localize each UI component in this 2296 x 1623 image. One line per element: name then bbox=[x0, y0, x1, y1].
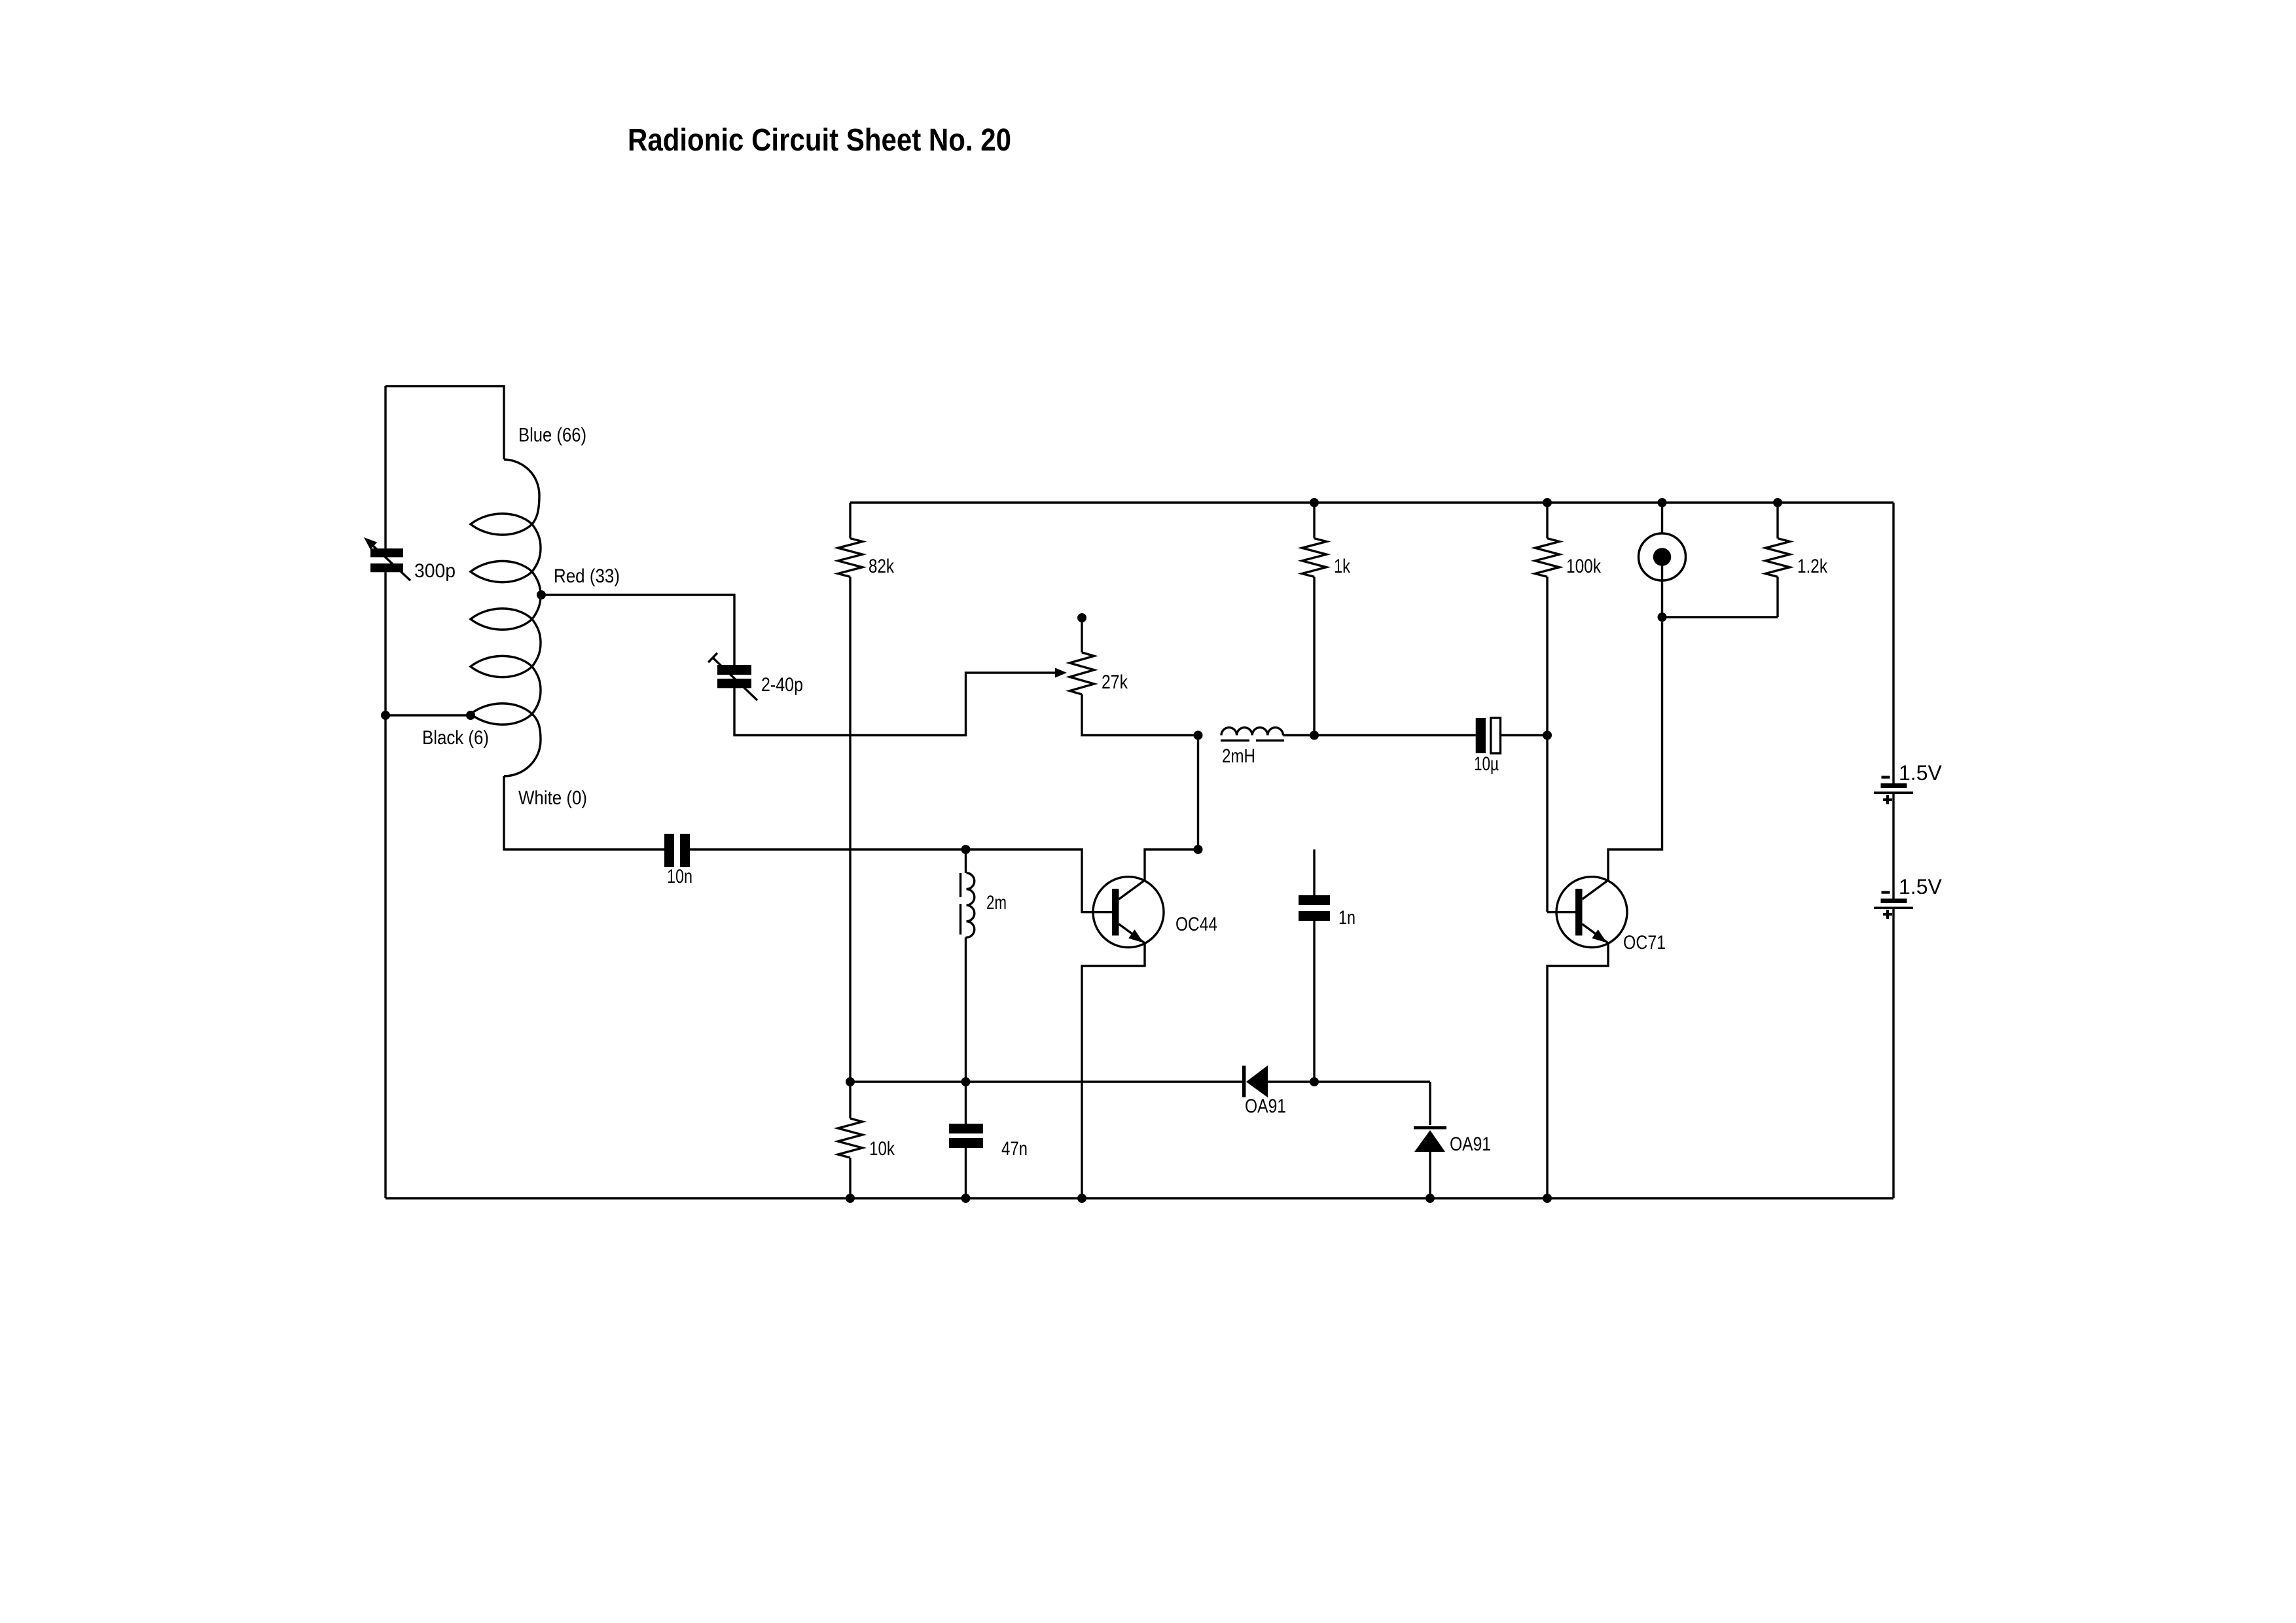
svg-text:2m: 2m bbox=[986, 892, 1007, 914]
svg-text:82k: 82k bbox=[869, 556, 895, 577]
svg-text:10k: 10k bbox=[869, 1138, 895, 1160]
svg-text:OA91: OA91 bbox=[1450, 1133, 1491, 1155]
svg-text:2-40p: 2-40p bbox=[761, 674, 803, 696]
svg-text:100k: 100k bbox=[1566, 556, 1602, 577]
svg-text:White (0): White (0) bbox=[518, 787, 587, 809]
svg-text:1.5V: 1.5V bbox=[1899, 761, 1942, 785]
svg-text:1k: 1k bbox=[1334, 556, 1351, 577]
svg-text:OC71: OC71 bbox=[1623, 932, 1666, 954]
svg-text:OA91: OA91 bbox=[1245, 1096, 1286, 1117]
svg-text:1.2k: 1.2k bbox=[1797, 556, 1828, 577]
svg-text:Red (33): Red (33) bbox=[554, 565, 620, 587]
svg-text:10n: 10n bbox=[667, 866, 692, 887]
svg-text:2mH: 2mH bbox=[1222, 745, 1255, 767]
svg-text:27k: 27k bbox=[1102, 671, 1128, 693]
svg-text:1n: 1n bbox=[1338, 907, 1355, 929]
svg-text:Radionic Circuit Sheet No. 20: Radionic Circuit Sheet No. 20 bbox=[628, 123, 1011, 158]
svg-text:OC44: OC44 bbox=[1175, 914, 1217, 935]
svg-text:10µ: 10µ bbox=[1474, 753, 1499, 775]
svg-text:47n: 47n bbox=[1001, 1138, 1028, 1160]
svg-text:1.5V: 1.5V bbox=[1899, 875, 1942, 899]
svg-text:Blue (66): Blue (66) bbox=[518, 425, 586, 446]
svg-text:300p: 300p bbox=[414, 560, 456, 582]
svg-text:Black (6): Black (6) bbox=[422, 727, 489, 749]
